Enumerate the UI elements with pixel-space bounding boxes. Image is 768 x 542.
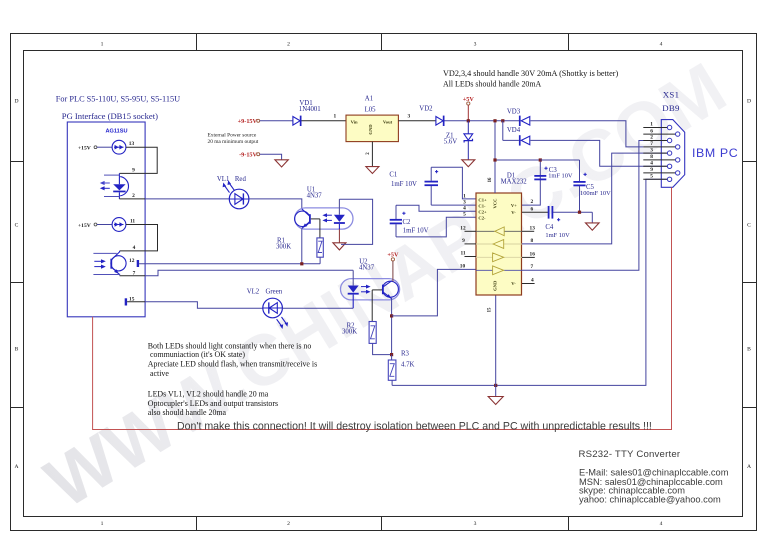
current source symbol upper <box>112 140 126 154</box>
svg-text:C2-: C2- <box>478 216 486 221</box>
svg-text:4: 4 <box>650 161 653 167</box>
wire C1 top to IC pin1 <box>431 167 476 199</box>
svg-text:Both LEDs should light constan: Both LEDs should light constantly when t… <box>148 341 312 350</box>
svg-text:1mF 10V: 1mF 10V <box>548 172 573 179</box>
svg-text:VCC: VCC <box>492 199 497 209</box>
IC pin16 stub <box>522 256 535 258</box>
svg-text:+9-15V: +9-15V <box>238 118 258 125</box>
svg-text:1: 1 <box>463 193 466 199</box>
svg-text:1N4001: 1N4001 <box>299 106 321 113</box>
wire VL1 to U1 collector <box>249 199 302 209</box>
zener Z1 5.6V <box>444 121 473 160</box>
svg-text:2: 2 <box>531 199 534 205</box>
wire IC pin10 to U2 emitter <box>392 269 476 316</box>
pin 13 stub and label <box>126 141 145 147</box>
svg-text:GND: GND <box>492 280 497 291</box>
svg-text:A: A <box>14 464 18 470</box>
svg-text:3: 3 <box>463 199 466 205</box>
svg-text:7: 7 <box>133 271 136 277</box>
svg-text:VD3: VD3 <box>507 108 521 115</box>
junction R3 wire / IC pin15 <box>494 384 497 387</box>
svg-text:20 ma minimum output: 20 ma minimum output <box>208 139 259 145</box>
IC pin13 stub <box>522 230 534 232</box>
wire IC pin2 up to C3 node <box>495 160 540 205</box>
svg-text:9: 9 <box>462 238 465 244</box>
svg-text:Vout: Vout <box>383 119 393 124</box>
svg-text:R3: R3 <box>401 350 410 357</box>
svg-text:active: active <box>150 369 169 378</box>
wire VD3 to DB9 pin7 <box>530 121 643 147</box>
red isolation warning wire <box>93 187 672 429</box>
svg-text:VL2: VL2 <box>247 288 260 295</box>
wire U2 emitter down <box>391 298 393 354</box>
pin 2 stub and label <box>119 193 145 199</box>
svg-text:4: 4 <box>133 245 136 251</box>
svg-text:For PLC S5-110U, S5-95U, S5-11: For PLC S5-110U, S5-95U, S5-115U <box>56 95 180 104</box>
A1 gnd pin 2 wire <box>366 142 373 167</box>
svg-text:300K: 300K <box>276 244 291 251</box>
node +5V terminal above U2 <box>387 251 399 281</box>
svg-text:V-: V- <box>511 281 516 286</box>
capacitor C5 100mF 10V <box>573 160 611 212</box>
wire IC pin15 gnd <box>495 295 497 396</box>
node +15V terminal (upper) <box>78 145 112 151</box>
svg-text:300K: 300K <box>342 328 357 335</box>
junction C5 bottom / C4 wire <box>578 211 581 214</box>
pin 7 stub and label <box>120 271 146 277</box>
pin 11 stub and label <box>126 219 145 225</box>
svg-text:C1: C1 <box>389 171 397 178</box>
svg-text:Apreciate LED should flash, wh: Apreciate LED should flash, when transmi… <box>148 360 317 369</box>
capacitor C2 1mF 10V <box>390 205 429 237</box>
svg-text:4: 4 <box>660 42 663 48</box>
wire U1 emitter down <box>301 229 303 264</box>
svg-text:+5V: +5V <box>387 251 399 258</box>
svg-text:A: A <box>747 464 751 470</box>
DB9 pin stubs <box>643 128 675 180</box>
junction VD3/VD4 branch <box>501 119 504 122</box>
svg-text:VD2,3,4 should handle 30V 20mA: VD2,3,4 should handle 30V 20mA (Shottky … <box>443 69 618 78</box>
svg-text:L05: L05 <box>365 106 377 113</box>
IC pin12 stub <box>465 230 477 232</box>
wire C1 bottom to IC pin3 <box>431 204 476 206</box>
junction U2 emitter / pin10 wire <box>390 314 393 317</box>
wire -9-15V to ground <box>260 154 282 159</box>
svg-text:1: 1 <box>650 122 653 128</box>
wire pin15 to VL2 <box>145 302 263 308</box>
svg-text:3: 3 <box>474 521 477 527</box>
svg-text:1mF 10V: 1mF 10V <box>403 228 429 235</box>
junction VCC on +5V rail <box>493 119 496 122</box>
diode VD3 <box>507 108 530 126</box>
svg-text:16: 16 <box>488 177 493 182</box>
LED VL2 Green <box>247 288 288 329</box>
diode VD1 <box>293 100 321 126</box>
svg-text:C1+: C1+ <box>478 197 487 202</box>
wire loop pin13 to pin9 <box>145 147 157 173</box>
svg-text:2: 2 <box>287 42 290 48</box>
svg-text:11: 11 <box>130 219 135 225</box>
wire pin7 to U2 led anode <box>145 270 353 276</box>
svg-text:Don't make this connection! It: Don't make this connection! It will dest… <box>177 421 652 433</box>
wire C3 rail to C5 <box>540 159 579 161</box>
wire U1 anode loop <box>339 199 372 244</box>
DB9 pin labels <box>650 122 653 180</box>
svg-text:6: 6 <box>650 128 653 134</box>
wire VCC vertical into IC top <box>494 121 496 193</box>
wire VL2 to U2 led cathode <box>282 307 353 309</box>
IC left pin labels <box>460 193 466 269</box>
svg-text:2: 2 <box>650 135 653 141</box>
resistor R1 300K <box>276 238 323 264</box>
svg-text:3: 3 <box>474 42 477 48</box>
svg-text:C4: C4 <box>545 224 554 231</box>
capacitor C3 1mF 10V <box>534 167 573 180</box>
svg-text:12: 12 <box>460 225 466 231</box>
svg-text:All LEDs should handle 20mA: All LEDs should handle 20mA <box>443 79 541 88</box>
svg-text:3: 3 <box>650 147 653 153</box>
ground at C4/C5 <box>586 223 600 230</box>
capacitor C4 1mF 10V <box>522 206 592 239</box>
resistor R2 300K <box>342 322 392 355</box>
svg-text:16: 16 <box>530 251 536 257</box>
svg-text:IBM PC: IBM PC <box>692 146 738 160</box>
svg-text:1mF 10V: 1mF 10V <box>391 181 417 188</box>
svg-text:13: 13 <box>129 141 135 147</box>
svg-text:also should handle 20ma: also should handle 20ma <box>148 408 227 417</box>
LED VL1 Red <box>217 176 249 209</box>
svg-text:C: C <box>747 223 751 229</box>
regulator A1 L05 <box>346 96 398 142</box>
wire VD2 to VD3 (+5V rail) <box>445 120 520 122</box>
node +9-15V terminal <box>238 118 260 125</box>
wire R3 to DB9 pin5 <box>392 179 667 385</box>
svg-text:1: 1 <box>101 42 104 48</box>
svg-text:100mF 10V: 100mF 10V <box>580 190 611 197</box>
capacitor C1 1mF 10V <box>389 167 438 205</box>
svg-text:MAX232: MAX232 <box>501 178 528 185</box>
svg-text:B: B <box>15 347 19 353</box>
current source symbol lower <box>112 218 126 232</box>
note block: LEDs VL1 VL2 <box>148 390 278 417</box>
svg-text:4N37: 4N37 <box>307 192 323 199</box>
wire VD4 to DB9 pin4 <box>530 140 667 166</box>
svg-text:VL1: VL1 <box>217 176 229 183</box>
svg-text:5.6V: 5.6V <box>444 139 457 146</box>
phototransistor element in AG11SU (pins 4-7) <box>93 251 126 275</box>
svg-text:V+: V+ <box>511 203 517 208</box>
optocoupler U2 4N37 <box>341 258 400 321</box>
svg-text:9: 9 <box>132 167 135 173</box>
ground below IC pin15 <box>488 397 503 405</box>
IC pin4 bottom stub <box>522 283 535 285</box>
svg-text:13: 13 <box>530 225 536 231</box>
svg-text:DB9: DB9 <box>662 103 680 113</box>
svg-text:C2: C2 <box>403 219 412 226</box>
pin 9 stub and label <box>119 167 145 173</box>
wire C4 to ground <box>591 212 593 223</box>
junction +5V <box>467 119 470 122</box>
wire C2 top to IC pin4 <box>396 205 476 211</box>
svg-text:12: 12 <box>129 258 135 264</box>
svg-text:C1-: C1- <box>478 203 486 208</box>
IC pin11 stub <box>465 256 477 258</box>
svg-text:GND: GND <box>368 124 373 135</box>
svg-text:1: 1 <box>334 113 337 119</box>
svg-text:External Power source: External Power source <box>208 133 257 139</box>
junction VCC / C3 rail <box>493 158 496 161</box>
wire U1 led cathode to ground <box>338 229 340 243</box>
resistor R3 4.7K <box>388 350 414 385</box>
svg-text:+15V: +15V <box>78 145 91 151</box>
wire IC pin7 to DB9 pin2 <box>522 141 667 271</box>
svg-text:4N37: 4N37 <box>359 264 375 271</box>
junction R2/R3 <box>390 353 393 356</box>
ground below A1 <box>366 167 379 174</box>
wire loop pin11 to pin4 <box>145 225 157 251</box>
svg-text:4.7K: 4.7K <box>401 361 414 368</box>
ground below Z1 <box>462 160 475 167</box>
wire VD1 to A1 pin1 <box>302 113 347 120</box>
pin 15 bar, stub and label <box>125 297 145 306</box>
svg-text:PG Interface (DB15 socket): PG Interface (DB15 socket) <box>62 111 158 121</box>
svg-text:2: 2 <box>287 521 290 527</box>
optocoupler U1 4N37 <box>295 186 353 238</box>
frame zone numbers top <box>101 42 663 48</box>
wire IC pin8 to DB9 pin3 <box>522 153 667 244</box>
photodiode element in AG11SU (pins 9-2) <box>100 173 129 199</box>
ground below -9-15V <box>275 160 288 167</box>
contact info <box>579 468 729 505</box>
wire pin12 to U1 emitter and R1 <box>139 263 320 265</box>
svg-text:yahoo: chinaplccable@yahoo.com: yahoo: chinaplccable@yahoo.com <box>579 495 721 505</box>
svg-text:LEDs VL1, VL2 should handle 20: LEDs VL1, VL2 should handle 20 ma <box>148 390 269 399</box>
svg-text:8: 8 <box>531 238 534 244</box>
svg-text:A1: A1 <box>365 96 373 103</box>
svg-text:VD2: VD2 <box>419 105 433 112</box>
IC D1 MAX232 <box>476 173 527 295</box>
wire A1 pin3 to VD2 <box>398 113 435 120</box>
svg-text:3: 3 <box>408 113 411 119</box>
svg-text:Red: Red <box>235 176 247 183</box>
svg-text:Green: Green <box>266 288 283 295</box>
svg-text:RS232- TTY Converter: RS232- TTY Converter <box>579 449 681 460</box>
svg-text:VD4: VD4 <box>507 127 521 134</box>
frame zone letters right <box>747 99 751 471</box>
node +5V terminal <box>463 96 475 121</box>
svg-text:7: 7 <box>531 264 534 270</box>
svg-text:1: 1 <box>101 521 104 527</box>
wire pin2 to VL1 <box>145 198 229 200</box>
svg-text:6: 6 <box>531 206 534 212</box>
wire C2 bottom to IC pin5 <box>396 217 476 237</box>
svg-text:4: 4 <box>660 521 663 527</box>
svg-text:5: 5 <box>463 212 466 218</box>
connector AG11SU (PG interface) box <box>67 122 145 317</box>
junction C3 top <box>539 158 542 161</box>
svg-text:5: 5 <box>650 174 653 180</box>
svg-text:2: 2 <box>132 193 135 199</box>
frame zone letters left <box>14 99 18 471</box>
junction U1 emitter <box>300 262 303 265</box>
diode VD2 <box>419 105 444 126</box>
svg-text:communiaction (it's OK state): communiaction (it's OK state) <box>150 350 245 359</box>
pin 4 stub and label <box>120 245 146 251</box>
svg-text:8: 8 <box>650 154 653 160</box>
svg-text:Vin: Vin <box>351 119 358 124</box>
svg-text:D: D <box>747 99 751 105</box>
svg-text:15: 15 <box>488 307 493 312</box>
svg-text:D: D <box>14 99 18 105</box>
svg-text:11: 11 <box>460 251 465 257</box>
wire +9-15V to VD1 <box>260 120 293 122</box>
svg-text:XS1: XS1 <box>663 90 680 100</box>
svg-text:4: 4 <box>463 206 466 212</box>
svg-text:4: 4 <box>531 278 534 284</box>
svg-text:10: 10 <box>460 264 466 270</box>
svg-text:1mF 10V: 1mF 10V <box>545 232 570 239</box>
frame zone numbers bottom <box>101 521 663 527</box>
svg-text:+15V: +15V <box>78 223 91 229</box>
node +15V terminal (lower) <box>78 223 112 229</box>
DB9 pin circles <box>667 125 680 181</box>
svg-text:9: 9 <box>650 167 653 173</box>
svg-text:C: C <box>15 223 19 229</box>
svg-text:AG11SU: AG11SU <box>105 128 127 134</box>
svg-text:C2+: C2+ <box>478 210 487 215</box>
diode VD4 <box>503 121 530 146</box>
note block: both LEDs <box>148 341 317 378</box>
pin 12 bar, stub and label <box>129 258 139 267</box>
IC pin9 stub <box>465 243 477 245</box>
svg-text:-9-15V: -9-15V <box>239 151 257 158</box>
ground below U1 <box>333 243 346 250</box>
connector XS1 DB9 <box>661 90 684 188</box>
svg-text:V-: V- <box>511 210 516 215</box>
node -9-15V terminal <box>239 151 260 158</box>
svg-text:B: B <box>747 347 751 353</box>
IC right pin labels <box>530 199 536 283</box>
svg-text:7: 7 <box>650 141 653 147</box>
svg-text:Optocupler's LEDs and output t: Optocupler's LEDs and output transistors <box>148 399 278 408</box>
